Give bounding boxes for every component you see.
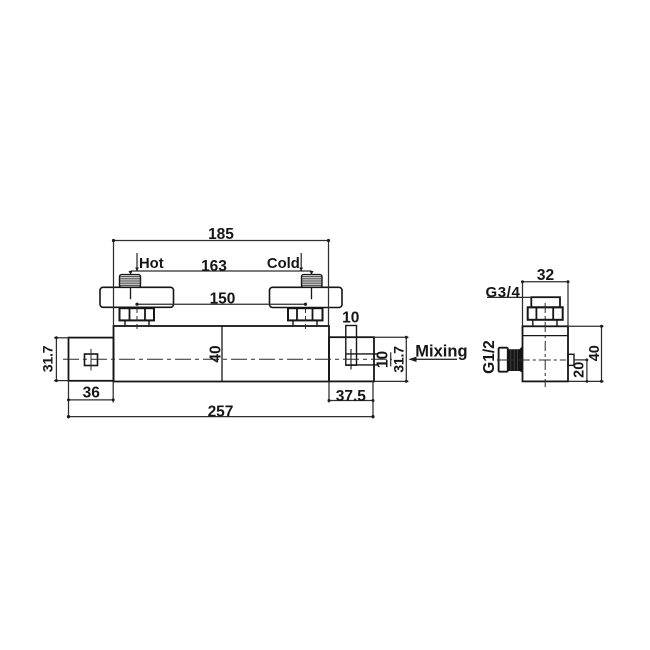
svg-text:G3/4: G3/4 — [486, 284, 521, 301]
side view centerlines — [497, 303, 566, 387]
G1/2 thread ridges — [511, 350, 518, 371]
mixing arrow — [412, 358, 457, 360]
main bar body — [114, 326, 330, 382]
svg-text:36: 36 — [83, 384, 101, 401]
side nut legs — [532, 320, 534, 327]
side cap — [531, 297, 560, 307]
dim 31.7 left — [55, 338, 57, 381]
dim 37.5 — [329, 400, 373, 402]
dim 31.7 right — [405, 337, 407, 381]
G3/4 leader — [487, 296, 531, 298]
left escutcheon plate — [100, 287, 174, 307]
dim 40 — [601, 326, 603, 381]
hot nut legs — [124, 320, 126, 326]
svg-text:32: 32 — [537, 267, 554, 284]
svg-text:Mixing: Mixing — [415, 342, 467, 360]
svg-text:257: 257 — [208, 404, 234, 421]
cold vertical centerline — [305, 308, 307, 332]
side body — [523, 326, 569, 381]
cold hex nut — [288, 308, 323, 320]
mixing pipe top line — [346, 353, 379, 355]
plug vertical centerline — [90, 349, 92, 371]
mixing pipe bottom line — [346, 364, 379, 366]
side hex nut — [528, 307, 563, 320]
svg-text:10: 10 — [342, 309, 359, 326]
cold thread center mark in plate — [311, 287, 313, 299]
svg-text:150: 150 — [210, 290, 236, 307]
svg-text:Cold: Cold — [267, 256, 300, 272]
right end block — [329, 337, 374, 381]
dimensions front view — [54, 239, 457, 419]
bar center divider — [221, 326, 223, 382]
dim 36 — [69, 399, 114, 401]
dim 257 — [69, 416, 374, 418]
hatching of hot thread — [120, 277, 322, 285]
svg-text:10: 10 — [374, 351, 391, 368]
svg-text:163: 163 — [201, 258, 227, 275]
main horizontal centerline — [63, 358, 392, 360]
hot inlet thread — [120, 275, 141, 288]
hot hex nut — [120, 308, 155, 320]
dim 163 — [131, 270, 312, 272]
side vertical centerline — [544, 303, 546, 387]
G1/2 thread solid — [508, 346, 523, 373]
side view dimensions — [487, 280, 604, 383]
mixing stub side — [568, 354, 574, 365]
cold leader — [300, 253, 302, 271]
port vertical centerline — [350, 349, 352, 370]
svg-text:40: 40 — [587, 345, 603, 361]
side view — [499, 297, 574, 381]
dim 10 right rotated underline — [390, 352, 392, 366]
svg-text:Hot: Hot — [139, 256, 164, 272]
svg-text:185: 185 — [208, 226, 234, 243]
svg-text:20: 20 — [572, 362, 588, 378]
centerlines — [63, 308, 392, 371]
svg-text:31.7: 31.7 — [391, 346, 407, 373]
hot leader — [136, 253, 138, 271]
dim 185 — [114, 240, 329, 242]
hot vertical centerline — [136, 308, 138, 332]
svg-text:37.5: 37.5 — [336, 388, 367, 405]
left end block — [69, 338, 114, 381]
dim 20 — [574, 359, 587, 361]
svg-text:40: 40 — [207, 345, 224, 362]
square plug on left block — [85, 354, 98, 366]
hot thread center mark in plate — [130, 287, 132, 299]
cold nut legs — [292, 320, 294, 326]
G1/2 collar — [499, 348, 508, 372]
mixing outlet port — [346, 326, 357, 366]
side body inner line — [523, 335, 569, 337]
dim 32 — [523, 281, 569, 283]
right escutcheon plate — [270, 287, 343, 307]
svg-text:31.7: 31.7 — [40, 345, 56, 372]
dim 150 — [137, 303, 306, 305]
cold inlet thread — [302, 275, 323, 288]
svg-text:G1/2: G1/2 — [481, 340, 498, 374]
hatching of cold thread — [302, 276, 322, 278]
side horizontal centerline — [497, 359, 566, 361]
